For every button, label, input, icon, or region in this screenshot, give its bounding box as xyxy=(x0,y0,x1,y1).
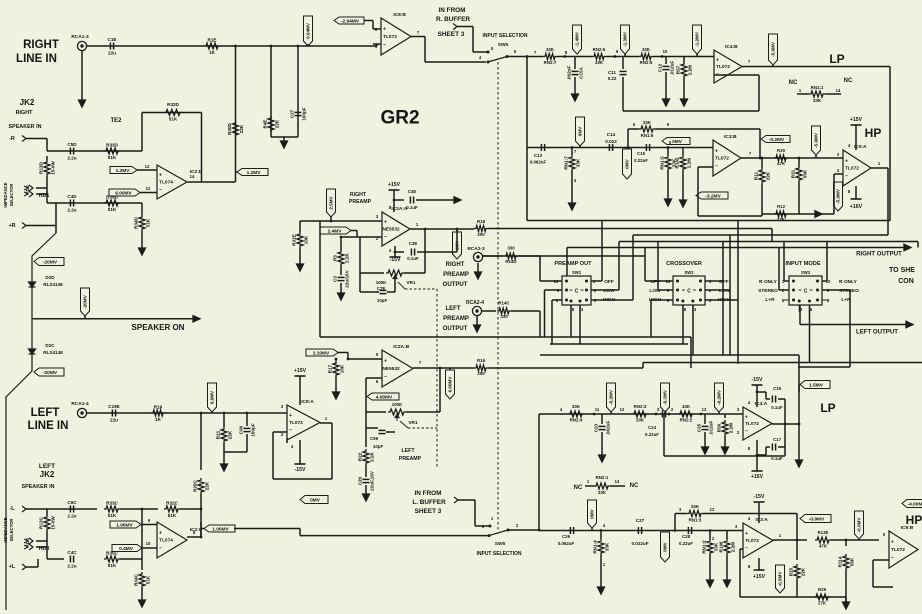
svg-text:0.1uF: 0.1uF xyxy=(406,205,418,210)
svg-text:C5D: C5D xyxy=(67,142,77,147)
svg-text:33K: 33K xyxy=(605,542,610,551)
svg-text:NE5532: NE5532 xyxy=(382,227,400,233)
svg-text:C23: C23 xyxy=(594,423,599,432)
svg-text:TL072: TL072 xyxy=(891,547,905,553)
svg-text:NC: NC xyxy=(789,80,798,86)
svg-text:C: C xyxy=(687,289,691,295)
svg-text:VR1: VR1 xyxy=(406,280,416,286)
svg-text:RCA2-3: RCA2-3 xyxy=(467,246,485,252)
svg-text:SHEET 3: SHEET 3 xyxy=(415,508,442,515)
svg-text:RN2:7: RN2:7 xyxy=(544,60,557,65)
svg-text:0MV: 0MV xyxy=(590,508,595,518)
svg-text:R ONLY: R ONLY xyxy=(759,279,777,285)
svg-text:IC8:B: IC8:B xyxy=(393,12,406,18)
svg-text:R5: R5 xyxy=(333,255,338,261)
svg-text:R33C: R33C xyxy=(106,501,118,506)
svg-text:IN FROM: IN FROM xyxy=(415,490,442,497)
svg-text:CON: CON xyxy=(898,278,914,285)
svg-text:33K: 33K xyxy=(576,158,581,167)
svg-text:IC4:B: IC4:B xyxy=(725,44,738,50)
svg-text:OFF: OFF xyxy=(604,279,614,285)
svg-text:INPUT SELECTION: INPUT SELECTION xyxy=(482,33,527,39)
svg-text:R30: R30 xyxy=(777,148,786,153)
svg-text:2.2K: 2.2K xyxy=(370,451,375,461)
svg-text:-R: -R xyxy=(9,136,15,142)
svg-text:RCA2-4: RCA2-4 xyxy=(466,300,484,306)
svg-text:0.022: 0.022 xyxy=(605,139,617,144)
svg-text:D2D: D2D xyxy=(45,275,55,280)
svg-text:-20MV: -20MV xyxy=(43,370,58,376)
svg-text:R114: R114 xyxy=(838,556,843,567)
svg-text:-0.1MV: -0.1MV xyxy=(663,389,668,405)
svg-text:.012uF: .012uF xyxy=(670,61,675,76)
svg-text:+15V: +15V xyxy=(753,574,766,580)
svg-text:-5.9MV: -5.9MV xyxy=(771,41,776,57)
svg-text:+L: +L xyxy=(9,564,16,570)
svg-text:2.2u: 2.2u xyxy=(67,156,76,161)
svg-text:33K: 33K xyxy=(642,47,651,52)
svg-text:SELECTOR: SELECTOR xyxy=(9,184,14,207)
svg-text:R28C: R28C xyxy=(193,479,198,491)
svg-text:LP: LP xyxy=(829,52,844,66)
svg-text:22uF,16V: 22uF,16V xyxy=(370,470,375,491)
svg-text:NC: NC xyxy=(844,78,853,84)
svg-text:1.00MV: 1.00MV xyxy=(212,526,229,532)
svg-text:C4E: C4E xyxy=(408,189,417,194)
svg-text:JK2: JK2 xyxy=(40,470,55,479)
svg-text:14: 14 xyxy=(836,88,841,93)
svg-text:56K: 56K xyxy=(803,169,808,178)
svg-text:0.22uF: 0.22uF xyxy=(634,158,648,163)
svg-text:RN1:7: RN1:7 xyxy=(564,156,569,170)
svg-text:+: + xyxy=(289,413,292,419)
svg-text:6.00MV: 6.00MV xyxy=(448,376,453,393)
svg-text:NE5532: NE5532 xyxy=(382,366,400,372)
svg-text:51K: 51K xyxy=(146,575,151,584)
svg-text:RIGHT: RIGHT xyxy=(16,110,33,116)
svg-text:NC: NC xyxy=(630,483,639,489)
svg-text:0.22: 0.22 xyxy=(608,76,617,81)
svg-text:13: 13 xyxy=(145,164,150,169)
svg-text:+: + xyxy=(159,173,162,179)
svg-text:C27: C27 xyxy=(290,109,295,118)
svg-text:-0.2MV: -0.2MV xyxy=(609,389,614,405)
svg-text:R19: R19 xyxy=(154,405,163,410)
svg-text:R18: R18 xyxy=(477,219,486,224)
svg-text:SW2: SW2 xyxy=(684,270,694,275)
svg-text:STEREO: STEREO xyxy=(839,288,859,294)
svg-text:-0.5MV: -0.5MV xyxy=(778,571,783,587)
svg-text:C: C xyxy=(575,289,579,295)
svg-text:C4D: C4D xyxy=(67,194,77,199)
svg-text:C16: C16 xyxy=(773,386,782,391)
svg-text:0.22uF: 0.22uF xyxy=(645,432,659,437)
svg-text:2.2M: 2.2M xyxy=(729,423,734,433)
svg-text:330: 330 xyxy=(500,314,508,319)
svg-text:51K: 51K xyxy=(108,207,117,212)
svg-text:C99: C99 xyxy=(370,436,379,441)
svg-text:L+R: L+R xyxy=(765,297,775,303)
svg-text:100K: 100K xyxy=(392,402,403,407)
svg-text:PREAMP: PREAMP xyxy=(349,199,372,205)
svg-text:STEREO: STEREO xyxy=(758,288,778,294)
svg-text:-15V: -15V xyxy=(390,257,401,263)
svg-text:+16V: +16V xyxy=(850,204,863,210)
svg-text:R14D: R14D xyxy=(505,259,516,264)
svg-text:R13C: R13C xyxy=(39,516,44,528)
svg-text:200: 200 xyxy=(477,371,485,376)
svg-text:PREAMP: PREAMP xyxy=(443,272,469,278)
svg-text:+R: +R xyxy=(8,223,15,229)
svg-text:22K: 22K xyxy=(205,481,210,490)
svg-text:15-6W: 15-6W xyxy=(51,516,56,530)
svg-text:IN FROM: IN FROM xyxy=(439,7,466,14)
svg-text:14: 14 xyxy=(190,174,195,179)
svg-text:-15V: -15V xyxy=(295,467,306,473)
svg-text:-15V: -15V xyxy=(752,377,763,383)
svg-text:C96: C96 xyxy=(239,425,244,434)
svg-text:C13: C13 xyxy=(534,153,543,158)
svg-text:51K: 51K xyxy=(168,513,177,518)
svg-text:47K: 47K xyxy=(777,161,786,166)
svg-text:33K: 33K xyxy=(598,490,607,495)
svg-text:+15V: +15V xyxy=(388,182,401,188)
svg-text:0MV: 0MV xyxy=(578,126,583,136)
svg-text:0.1uF: 0.1uF xyxy=(407,256,419,261)
svg-text:2.4MV: 2.4MV xyxy=(328,228,343,234)
svg-text:C11: C11 xyxy=(608,70,616,75)
svg-text:C28: C28 xyxy=(682,534,691,539)
svg-text:1K: 1K xyxy=(209,50,216,55)
svg-text:+: + xyxy=(745,414,748,420)
svg-text:–: – xyxy=(159,545,162,551)
svg-text:OUTPUT: OUTPUT xyxy=(443,326,468,332)
svg-text:HP: HP xyxy=(865,126,882,140)
svg-text:LEFT: LEFT xyxy=(31,407,60,419)
svg-text:R12: R12 xyxy=(777,204,786,209)
svg-text:100pF: 100pF xyxy=(251,423,256,436)
svg-text:0.22uF: 0.22uF xyxy=(679,541,693,546)
svg-text:R4E: R4E xyxy=(263,120,268,129)
svg-text:0.062uF: 0.062uF xyxy=(530,160,547,165)
svg-text:0MV: 0MV xyxy=(663,541,668,551)
svg-text:R31: R31 xyxy=(791,169,796,178)
svg-text:R57: R57 xyxy=(676,65,681,74)
svg-text:–: – xyxy=(383,42,386,48)
svg-text:RN1:1: RN1:1 xyxy=(811,85,824,90)
svg-text:22K: 22K xyxy=(239,124,244,133)
svg-text:2.10MV: 2.10MV xyxy=(313,350,330,356)
svg-text:PREAMP OUT: PREAMP OUT xyxy=(554,261,592,267)
svg-text:2.2u: 2.2u xyxy=(67,208,76,213)
svg-text:51K: 51K xyxy=(108,155,117,160)
svg-text:IC3:A: IC3:A xyxy=(755,517,768,523)
svg-text:6.00MV: 6.00MV xyxy=(115,190,132,196)
svg-text:C25: C25 xyxy=(697,423,702,432)
svg-text:–: – xyxy=(384,234,387,240)
svg-text:+15V: +15V xyxy=(850,117,863,123)
svg-text:R32C: R32C xyxy=(166,501,178,506)
svg-text:-0.2MV: -0.2MV xyxy=(769,137,785,143)
svg-text:HP: HP xyxy=(906,513,922,527)
svg-text:C1E: C1E xyxy=(108,37,117,42)
svg-text:R11: R11 xyxy=(754,171,759,180)
svg-text:+15V: +15V xyxy=(294,368,307,374)
svg-text:TO SHE: TO SHE xyxy=(889,267,915,274)
svg-text:2.2M: 2.2M xyxy=(731,542,736,552)
svg-text:–: – xyxy=(845,173,848,179)
svg-text:51K: 51K xyxy=(169,117,178,122)
svg-text:RN1:6: RN1:6 xyxy=(641,133,654,138)
svg-text:SW1: SW1 xyxy=(572,270,582,275)
svg-text:.062uF: .062uF xyxy=(606,421,611,436)
svg-text:C15A: C15A xyxy=(579,66,584,78)
svg-text:–: – xyxy=(745,546,748,552)
svg-text:TL072: TL072 xyxy=(289,420,303,426)
svg-text:LOW: LOW xyxy=(603,288,615,294)
svg-text:C4C: C4C xyxy=(67,550,77,555)
svg-text:LINE IN: LINE IN xyxy=(28,420,69,432)
svg-text:C12: C12 xyxy=(658,63,663,72)
svg-text:0.1uF: 0.1uF xyxy=(771,405,783,410)
svg-text:-1.4MV: -1.4MV xyxy=(575,31,580,47)
svg-text:RN2:1: RN2:1 xyxy=(596,475,609,480)
svg-text:+: + xyxy=(384,220,387,226)
svg-text:C27: C27 xyxy=(636,518,645,523)
svg-text:100K: 100K xyxy=(376,280,387,285)
svg-text:LEFT OUTPUT: LEFT OUTPUT xyxy=(856,329,898,336)
svg-text:R16: R16 xyxy=(477,358,486,363)
svg-text:TL072: TL072 xyxy=(845,166,859,172)
svg-text:200: 200 xyxy=(477,232,485,237)
svg-text:LOW: LOW xyxy=(649,288,661,294)
svg-text:56K: 56K xyxy=(850,557,855,566)
svg-text:LOW: LOW xyxy=(719,288,731,294)
svg-text:LEFT: LEFT xyxy=(446,306,461,312)
svg-text:+: + xyxy=(383,27,386,33)
svg-text:TL072: TL072 xyxy=(745,538,759,544)
svg-text:R13D: R13D xyxy=(39,161,44,173)
svg-text:51K: 51K xyxy=(108,563,117,568)
svg-text:-2.94MV: -2.94MV xyxy=(341,18,360,24)
svg-text:13: 13 xyxy=(702,407,707,412)
svg-text:RN2:2: RN2:2 xyxy=(680,418,693,423)
svg-text:0.9MV: 0.9MV xyxy=(210,390,215,404)
svg-text:15-6W: 15-6W xyxy=(51,161,56,175)
svg-text:1.2MV: 1.2MV xyxy=(247,170,262,176)
svg-text:0MV: 0MV xyxy=(672,139,683,145)
svg-text:+: + xyxy=(745,531,748,537)
svg-text:RCA1-3: RCA1-3 xyxy=(71,34,89,40)
svg-text:OFF: OFF xyxy=(719,279,729,285)
svg-text:22K: 22K xyxy=(766,171,771,180)
svg-text:–: – xyxy=(715,163,718,169)
svg-text:IMPEDANCE: IMPEDANCE xyxy=(3,517,8,542)
svg-text:+: + xyxy=(845,158,848,164)
svg-text:-15V: -15V xyxy=(754,494,765,500)
svg-text:RIGHT OUTPUT: RIGHT OUTPUT xyxy=(856,251,902,258)
svg-text:RIGHT: RIGHT xyxy=(23,39,59,51)
svg-text:10: 10 xyxy=(146,541,151,546)
svg-text:IC8:A: IC8:A xyxy=(301,399,314,405)
svg-text:IC9:A: IC9:A xyxy=(854,144,867,150)
svg-text:2.2K: 2.2K xyxy=(345,252,350,262)
svg-text:-1.2MV: -1.2MV xyxy=(695,31,700,47)
svg-text:+: + xyxy=(159,530,162,536)
svg-text:L. BUFFER: L. BUFFER xyxy=(412,499,446,506)
svg-text:1MV: 1MV xyxy=(455,240,460,250)
svg-text:10K: 10K xyxy=(304,235,309,244)
svg-text:TL072: TL072 xyxy=(716,64,730,70)
svg-text:22K: 22K xyxy=(275,119,280,128)
svg-text:R33D: R33D xyxy=(106,143,118,148)
svg-text:1.2MV: 1.2MV xyxy=(116,168,131,174)
svg-text:RN1:4: RN1:4 xyxy=(593,540,598,554)
svg-text:2.2M: 2.2M xyxy=(688,65,693,75)
svg-text:SPEAKER IN: SPEAKER IN xyxy=(22,484,55,490)
svg-text:SW5: SW5 xyxy=(498,42,509,48)
svg-text:-5.9MV: -5.9MV xyxy=(836,188,841,204)
svg-text:HD4: HD4 xyxy=(25,538,31,548)
svg-text:R32D: R32D xyxy=(167,102,179,107)
svg-text:R29: R29 xyxy=(818,587,827,592)
svg-text:C20: C20 xyxy=(358,476,363,485)
svg-text:R22: R22 xyxy=(358,452,363,461)
svg-text:R31E: R31E xyxy=(292,234,297,246)
svg-text:R17: R17 xyxy=(328,364,333,373)
svg-text:33K: 33K xyxy=(636,418,645,423)
svg-text:R ONLY: R ONLY xyxy=(839,279,857,285)
svg-text:TE2: TE2 xyxy=(110,118,122,124)
svg-text:22K: 22K xyxy=(228,430,233,439)
svg-text:33K: 33K xyxy=(813,98,822,103)
svg-text:-0.5MV: -0.5MV xyxy=(857,517,862,533)
svg-text:22u: 22u xyxy=(108,51,116,56)
svg-text:RN1:2: RN1:2 xyxy=(702,540,707,554)
svg-text:0.062uF: 0.062uF xyxy=(558,541,575,546)
svg-text:22u/16V: 22u/16V xyxy=(345,269,350,287)
svg-text:PREAMP: PREAMP xyxy=(399,456,422,462)
svg-text:2.5MV: 2.5MV xyxy=(329,195,334,209)
svg-text:33K: 33K xyxy=(682,404,691,409)
svg-text:PREAMP: PREAMP xyxy=(443,316,469,322)
svg-text:+15V: +15V xyxy=(751,474,764,480)
svg-text:–: – xyxy=(745,428,748,434)
svg-text:-20MV: -20MV xyxy=(83,294,88,308)
svg-text:1K: 1K xyxy=(155,417,162,422)
svg-text:TL072: TL072 xyxy=(715,156,729,162)
svg-text:R30D: R30D xyxy=(227,122,232,134)
svg-text:4.00MV: 4.00MV xyxy=(376,394,393,400)
svg-text:RN2:3: RN2:3 xyxy=(634,404,647,409)
svg-text:–: – xyxy=(384,374,387,380)
svg-text:C: C xyxy=(804,289,808,295)
svg-text:C3E: C3E xyxy=(409,241,418,246)
svg-text:C26: C26 xyxy=(562,534,571,539)
svg-text:R21: R21 xyxy=(216,430,221,439)
svg-text:R25: R25 xyxy=(789,567,794,576)
svg-text:TL072: TL072 xyxy=(745,421,759,427)
svg-text:TL074: TL074 xyxy=(159,538,173,544)
svg-text:33K: 33K xyxy=(691,504,700,509)
svg-text:10: 10 xyxy=(663,49,668,54)
svg-text:+: + xyxy=(716,57,719,63)
svg-text:0.94MV: 0.94MV xyxy=(306,22,311,39)
svg-text:RCA1-4: RCA1-4 xyxy=(71,401,89,407)
svg-text:RN2:4: RN2:4 xyxy=(570,418,583,423)
svg-text:11: 11 xyxy=(595,407,600,412)
svg-text:IC2A:B: IC2A:B xyxy=(393,344,410,350)
svg-text:12: 12 xyxy=(710,507,715,512)
svg-text:C15: C15 xyxy=(637,151,646,156)
svg-text:R1E: R1E xyxy=(208,38,217,43)
svg-text:SW5: SW5 xyxy=(495,541,506,547)
svg-text:-5.9MV: -5.9MV xyxy=(814,132,819,148)
svg-text:12: 12 xyxy=(146,186,151,191)
svg-text:R14C: R14C xyxy=(498,301,510,306)
svg-text:RN2:6: RN2:6 xyxy=(593,47,606,52)
svg-text:RN1:5: RN1:5 xyxy=(660,156,665,170)
svg-text:33K: 33K xyxy=(643,120,652,125)
svg-text:RN2:5: RN2:5 xyxy=(640,60,653,65)
svg-text:TL072: TL072 xyxy=(383,34,397,40)
svg-text:+: + xyxy=(715,148,718,154)
svg-text:D2C: D2C xyxy=(45,343,55,348)
svg-text:R142: R142 xyxy=(675,157,680,168)
svg-text:SPEAKER IN: SPEAKER IN xyxy=(9,124,42,130)
svg-text:-1.3MV: -1.3MV xyxy=(623,31,628,47)
svg-text:LP: LP xyxy=(820,401,835,415)
svg-text:100pF: 100pF xyxy=(302,107,307,120)
svg-text:C3: C3 xyxy=(333,276,338,282)
svg-text:R13E: R13E xyxy=(818,530,829,535)
svg-text:+: + xyxy=(384,359,387,365)
svg-text:22K: 22K xyxy=(801,567,806,576)
svg-text:RLS4148: RLS4148 xyxy=(43,282,63,287)
svg-text:CROSSOVER: CROSSOVER xyxy=(666,261,702,267)
svg-text:22u: 22u xyxy=(110,418,118,423)
svg-text:.012uF: .012uF xyxy=(709,421,714,436)
svg-text:R56: R56 xyxy=(717,423,722,432)
svg-text:OUTPUT: OUTPUT xyxy=(443,282,468,288)
svg-text:10pF: 10pF xyxy=(377,298,388,303)
svg-text:VR1: VR1 xyxy=(408,420,418,426)
svg-text:TL074: TL074 xyxy=(159,180,173,186)
svg-text:-0.9MV: -0.9MV xyxy=(809,516,825,522)
svg-text:JK2: JK2 xyxy=(20,98,35,107)
svg-text:33K: 33K xyxy=(595,60,604,65)
svg-text:–: – xyxy=(289,428,292,434)
svg-text:LEFT: LEFT xyxy=(402,448,416,454)
svg-text:C14: C14 xyxy=(607,132,616,137)
svg-text:1.5MV: 1.5MV xyxy=(809,382,824,388)
svg-text:RIGHT: RIGHT xyxy=(350,192,367,198)
svg-text:2.2u: 2.2u xyxy=(67,514,76,519)
svg-text:SHEET 3: SHEET 3 xyxy=(438,31,465,38)
svg-text:10K: 10K xyxy=(340,364,345,373)
svg-text:47K: 47K xyxy=(819,544,828,549)
svg-text:LEFT: LEFT xyxy=(39,463,55,470)
svg-text:0MV: 0MV xyxy=(625,158,630,168)
svg-text:R. BUFFER: R. BUFFER xyxy=(436,16,470,23)
svg-text:IMPEDANCE: IMPEDANCE xyxy=(3,182,8,207)
svg-text:SPEAKER ON: SPEAKER ON xyxy=(132,323,185,332)
svg-text:2.2u: 2.2u xyxy=(67,564,76,569)
svg-text:33K: 33K xyxy=(572,404,581,409)
svg-text:12: 12 xyxy=(620,407,625,412)
svg-text:10pF: 10pF xyxy=(373,444,384,449)
svg-text:C24: C24 xyxy=(648,425,657,430)
